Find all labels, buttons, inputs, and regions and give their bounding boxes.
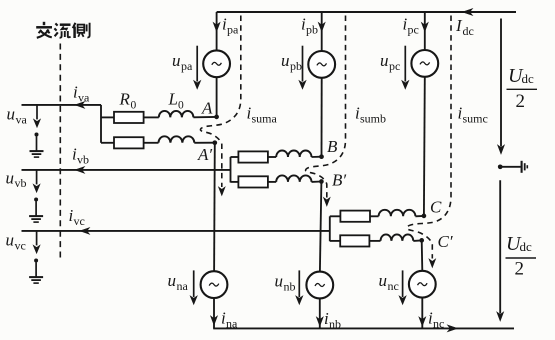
svg-text:A: A [201,99,213,118]
svg-text:nc: nc [433,316,444,330]
svg-text:2: 2 [516,91,526,112]
svg-text:vc: vc [15,238,26,252]
svg-text:suma: suma [252,111,278,125]
svg-text:u: u [275,272,284,291]
svg-text:R: R [119,90,131,109]
svg-text:C′: C′ [438,232,453,251]
svg-text:u: u [7,105,16,124]
svg-text:2: 2 [515,259,525,280]
svg-text:u: u [379,271,388,290]
svg-text:pa: pa [227,22,239,36]
svg-text:u: u [168,271,177,290]
svg-text:L: L [168,90,178,109]
svg-text:B′: B′ [332,171,346,190]
svg-text:B: B [327,137,338,156]
svg-text:va: va [78,90,90,104]
svg-text:na: na [177,279,189,293]
svg-text:vb: vb [77,152,89,166]
svg-text:nb: nb [329,317,341,331]
svg-text:pc: pc [408,22,419,36]
svg-text:u: u [281,51,290,70]
svg-text:sumc: sumc [463,111,488,125]
svg-text:nc: nc [388,279,399,293]
svg-text:vb: vb [15,176,27,190]
svg-text:0: 0 [178,99,184,111]
svg-text:u: u [6,231,15,250]
svg-text:u: u [172,51,181,70]
svg-text:vc: vc [74,214,85,228]
svg-text:u: u [6,168,15,187]
svg-text:A′: A′ [197,145,212,164]
svg-text:pa: pa [181,59,193,73]
svg-text:va: va [16,112,28,126]
svg-text:pb: pb [306,22,318,36]
svg-text:sumb: sumb [360,111,386,125]
svg-text:dc: dc [463,24,474,38]
svg-text:pb: pb [290,59,302,73]
svg-text:na: na [226,316,238,330]
svg-text:dc: dc [520,239,533,254]
svg-text:0: 0 [131,99,137,111]
svg-text:dc: dc [522,71,535,86]
svg-text:u: u [380,51,389,70]
svg-text:nb: nb [284,279,296,293]
svg-text:pc: pc [389,59,400,73]
svg-text:C: C [430,198,442,217]
